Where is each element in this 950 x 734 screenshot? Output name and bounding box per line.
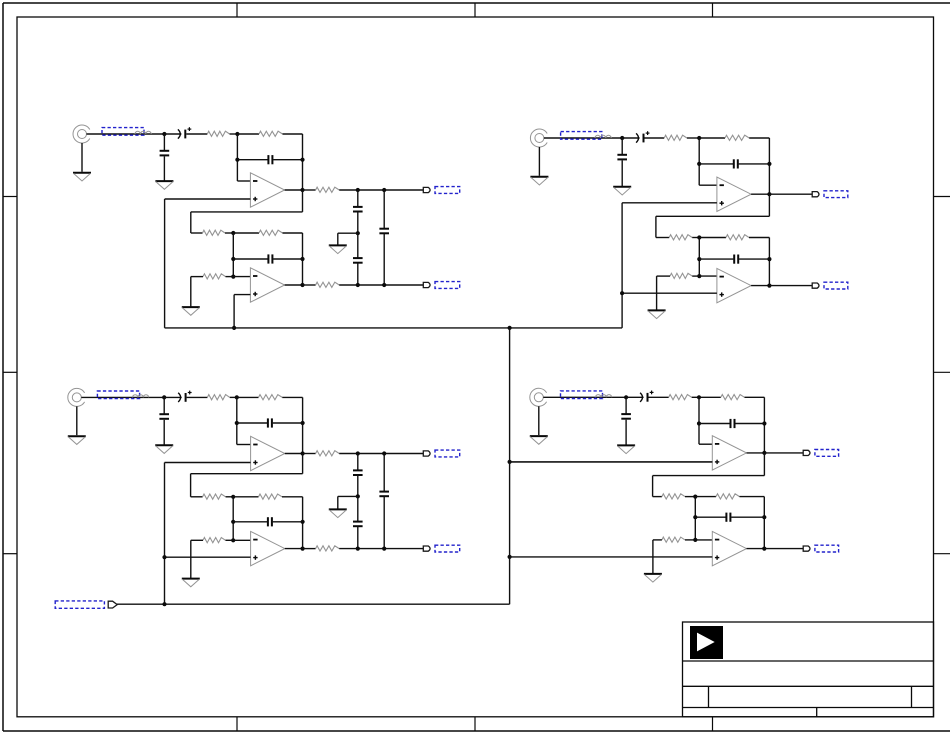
resistor R1g output xyxy=(316,282,340,287)
company logo xyxy=(690,626,723,659)
wire U3B output xyxy=(285,548,303,550)
wire R3f to pin xyxy=(339,453,423,455)
wire fb rail U3A xyxy=(302,397,304,453)
wire to C2d xyxy=(699,258,733,260)
wire R1e to ground xyxy=(190,277,192,307)
ferrite bead FB3 xyxy=(133,395,149,398)
net label box channel 1 input xyxy=(102,128,144,136)
wire U4A noninverting input xyxy=(510,461,713,463)
net label box out 2B xyxy=(824,282,848,289)
wire R3e left stub xyxy=(191,539,203,541)
wire OUT U1B to R1g xyxy=(303,284,316,286)
wire to U3A inverting input xyxy=(237,444,251,446)
node filter 3 top B xyxy=(382,451,386,455)
resistor R2c xyxy=(669,235,692,240)
wire J2 to input node xyxy=(544,137,622,139)
junction bus vertical xyxy=(508,326,512,330)
node sum U3A xyxy=(235,395,239,399)
resistor R2b feedback xyxy=(725,135,749,140)
wire R4e left stub xyxy=(653,539,662,541)
capacitor C2d feedback xyxy=(734,255,738,264)
ground at J4 xyxy=(530,436,548,444)
wire fb rail U2A xyxy=(768,138,770,194)
wire fb rail U1B xyxy=(302,233,304,285)
wire sum to R3b xyxy=(237,396,259,398)
wire U4A noninverting input xyxy=(510,461,713,463)
junction C fb U3B left xyxy=(231,520,235,524)
wire OUT U3A to R3f xyxy=(303,453,316,455)
wire R2c to sum2 xyxy=(692,237,699,239)
junction C fb U4B right xyxy=(762,515,766,519)
wire J1 shield to ground xyxy=(81,143,83,172)
ground at filter 3 xyxy=(329,509,347,517)
wire link to stage2 xyxy=(656,215,770,217)
wire to C3c xyxy=(237,422,267,424)
op-amp U4B xyxy=(712,531,746,565)
ground at J3 xyxy=(68,436,86,444)
wire U3 noninv bus down xyxy=(164,463,166,605)
wire U1B noninv down to bus xyxy=(233,295,235,328)
wire U2 noninv bus down xyxy=(621,203,623,328)
node OUT U2B xyxy=(767,284,771,288)
wire R1e to sum2 xyxy=(226,276,234,278)
net label box channel 3 input xyxy=(97,391,139,399)
node sum U2B xyxy=(697,235,701,239)
resistor R3d feedback xyxy=(259,494,283,499)
wire sum to R4b xyxy=(699,396,721,398)
wire U1A noninv down to bus xyxy=(164,199,166,328)
capacitor C4d feedback xyxy=(726,513,730,522)
ground at R4e xyxy=(644,574,662,582)
connector J4 RCA input xyxy=(530,388,547,406)
wire OUT U4B to pin xyxy=(764,548,803,550)
ground at J2 xyxy=(530,177,548,185)
wire R1b to fb rail xyxy=(283,133,303,135)
ground at R3e xyxy=(182,579,200,587)
wire C3f to bottom row xyxy=(357,527,359,549)
net label box out 1B xyxy=(435,282,460,289)
capacitor C1a shunt xyxy=(160,151,170,156)
node sum U2A xyxy=(697,136,701,140)
wire sum node down U1A xyxy=(236,134,238,181)
wire OUT U4A to pin xyxy=(764,452,803,454)
connector J3 RCA input xyxy=(68,388,85,406)
wire IN4 to C4b xyxy=(626,396,644,398)
resistor R1d feedback xyxy=(259,230,283,235)
wire C2b to R2a xyxy=(645,137,665,139)
wire R3b to fb rail xyxy=(282,396,302,398)
resistor R4d feedback xyxy=(716,494,740,499)
capacitor C1f filter xyxy=(353,258,363,263)
wire ground drop filter 1 xyxy=(337,233,339,245)
wire filter 3 col B lower xyxy=(383,497,385,549)
wire bus vertical xyxy=(509,328,511,604)
wire C1e to mid xyxy=(357,212,359,233)
node sum U3B xyxy=(231,495,235,499)
wire sum2 to R2d xyxy=(699,237,726,239)
wire link to stage2 xyxy=(191,211,303,213)
wire R4a to sum node xyxy=(692,396,699,398)
node filter 3 bottom A xyxy=(356,547,360,551)
capacitor C2a shunt xyxy=(617,155,627,160)
output pin channel 2 A xyxy=(812,192,819,197)
op-amp U2A xyxy=(717,177,751,211)
capacitor C3g filter xyxy=(379,492,389,497)
capacitor C1c feedback xyxy=(268,155,272,164)
capacitor C1d feedback xyxy=(268,254,272,263)
wire R4e to sum2 xyxy=(685,539,695,541)
net label box out 3A xyxy=(435,450,460,457)
node sum U4A xyxy=(697,395,701,399)
wire U3A noninverting input xyxy=(165,462,251,464)
resistor R4c xyxy=(662,494,685,499)
output pin channel 1 B xyxy=(423,282,430,287)
wire to C2c xyxy=(699,163,733,165)
resistor R3c xyxy=(203,494,226,499)
wire sum2 down U2B xyxy=(698,238,700,277)
wire U2B output xyxy=(751,285,769,287)
wire OUT U1A to R1f xyxy=(303,189,316,191)
wire sum node down U4A xyxy=(698,397,700,444)
wire to C4c xyxy=(699,423,730,425)
resistor R3e to ground xyxy=(203,538,226,543)
wire R2b to fb rail xyxy=(749,137,769,139)
capacitor C4a shunt xyxy=(621,414,631,419)
junction U1B inverting xyxy=(231,275,235,279)
wire C3a to ground xyxy=(163,420,165,445)
wire to C4d xyxy=(695,516,725,518)
node OUT U1B xyxy=(300,283,304,287)
wire R1d to fb rail 2 xyxy=(283,232,303,234)
resistor R1a input xyxy=(207,131,229,136)
wire U1B noninverting input xyxy=(234,294,250,296)
connector J1 RCA input xyxy=(73,125,90,143)
wire link down to R2c xyxy=(655,216,657,237)
resistor R3f output xyxy=(316,451,340,456)
wire R1a to sum node xyxy=(230,133,238,135)
wire C4c to fb rail xyxy=(735,423,764,425)
wire link down to R4c xyxy=(652,476,654,497)
node OUT U4A xyxy=(762,451,766,455)
node filter 1 top A xyxy=(356,188,360,192)
node sum U4B xyxy=(693,495,697,499)
wire bus bottom rail xyxy=(117,603,510,605)
output pin channel 1 A xyxy=(423,187,430,192)
node OUT U1A xyxy=(300,188,304,192)
junction C fb U2A right xyxy=(767,162,771,166)
node OUT U3A xyxy=(301,451,305,455)
wire link down to R3c xyxy=(190,474,192,497)
wire U2B noninverting input xyxy=(622,292,717,294)
wire U4A out down xyxy=(763,453,765,476)
wire C3d to fb rail 2 xyxy=(273,521,303,523)
capacitor C3f filter xyxy=(353,522,363,527)
node filter 3 top A xyxy=(356,451,360,455)
resistor R3a input xyxy=(207,395,229,400)
wire link to stage2 xyxy=(653,475,765,477)
wire R1g to pin xyxy=(339,284,423,286)
wire OUT U2B to pin xyxy=(769,285,812,287)
ground at C3a xyxy=(155,445,173,453)
wire to C1d xyxy=(233,258,267,260)
ground at R2e xyxy=(648,310,666,318)
capacitor C2b polarized xyxy=(636,131,649,142)
wire to C1c xyxy=(237,159,267,161)
resistor R4b feedback xyxy=(721,395,745,400)
title block xyxy=(683,622,934,717)
node filter 3 mid xyxy=(356,494,360,498)
wire U3A out down xyxy=(302,454,304,474)
junction C fb U3B right xyxy=(301,520,305,524)
junction bus U1B xyxy=(232,326,236,330)
wire to U2B inverting input xyxy=(699,275,717,277)
node IN4 xyxy=(624,395,628,399)
wire U1A output xyxy=(285,189,303,191)
wire to U1A inverting input xyxy=(237,180,250,182)
junction bus U2B xyxy=(620,291,624,295)
op-amp U3A xyxy=(251,436,285,470)
wire C4d to fb rail 2 xyxy=(731,516,764,518)
wire filter 1 mid to ground xyxy=(338,232,358,234)
wire J3 to input node xyxy=(81,396,164,398)
wire C2a to ground xyxy=(621,160,623,186)
op-amp U1A xyxy=(250,173,284,207)
wire C1a to ground xyxy=(163,156,165,180)
wire R3g to pin xyxy=(339,548,423,550)
junction C fb U2B right xyxy=(767,257,771,261)
wire R2d to fb rail 2 xyxy=(749,237,769,239)
node OUT U4B xyxy=(762,547,766,551)
net label box out 4B xyxy=(815,545,839,552)
wire IN2 to C shunt xyxy=(621,138,623,154)
capacitor C3b polarized xyxy=(178,391,191,402)
junction bus U4A xyxy=(508,460,512,464)
resistor R1c xyxy=(203,230,226,235)
wire U4A output xyxy=(747,452,765,454)
wire IN2 to C2b xyxy=(622,137,639,139)
wire link to stage2 xyxy=(191,473,303,475)
resistor R4e to ground xyxy=(662,537,685,542)
capacitor C2c feedback xyxy=(734,159,738,168)
junction C fb U4A right xyxy=(762,421,766,425)
wire filter 3 col B upper xyxy=(383,454,385,492)
wire R3d to fb rail 2 xyxy=(282,496,303,498)
resistor R3b feedback xyxy=(259,395,283,400)
wire U1B output xyxy=(285,284,303,286)
wire to U2A inverting input xyxy=(699,184,717,186)
wire C3c to fb rail xyxy=(273,422,303,424)
output pin channel 3 B xyxy=(423,546,430,551)
wire OUT U3B to R3g xyxy=(303,548,316,550)
wire IN1 to C1b xyxy=(164,133,181,135)
ground at C4a xyxy=(617,445,635,453)
wire IN4 to C shunt xyxy=(625,397,627,413)
wire U2A output xyxy=(751,193,769,195)
wire U1A out down xyxy=(302,190,304,212)
node filter 1 bottom A xyxy=(356,283,360,287)
wire to R4c xyxy=(653,496,662,498)
node IN1 xyxy=(162,132,166,136)
wire to U3B inverting input xyxy=(233,539,250,541)
net label box out 4A xyxy=(815,450,839,457)
node IN3 xyxy=(162,395,166,399)
wire fb rail U2B xyxy=(768,238,770,286)
wire U4B noninverting input xyxy=(510,556,713,558)
junction C fb U1A right xyxy=(300,158,304,162)
junction C fb U2A left xyxy=(697,162,701,166)
ground at C2a xyxy=(613,187,631,195)
capacitor C1b polarized xyxy=(178,127,191,138)
wire IN3 to C3b xyxy=(164,396,182,398)
net label box channel 4 input xyxy=(561,391,603,399)
wire J1 to input node xyxy=(87,133,165,135)
capacitor C3e filter xyxy=(353,470,363,475)
net label box out 1A xyxy=(435,187,460,194)
junction U4B inverting xyxy=(693,538,697,542)
wire J4 to input node xyxy=(543,396,626,398)
wire bus top rail xyxy=(165,327,622,329)
wire U3B noninverting input xyxy=(165,556,251,558)
ferrite bead FB2 xyxy=(595,135,611,138)
wire C4b to R4a xyxy=(649,396,669,398)
junction C fb U3A right xyxy=(301,421,305,425)
capacitor C3d feedback xyxy=(268,517,272,526)
wire ground drop filter 3 xyxy=(337,496,339,509)
resistor R2e to ground xyxy=(670,273,692,278)
ground at filter 1 xyxy=(329,245,347,253)
wire fb rail U1A xyxy=(302,134,304,190)
wire U1A noninverting input xyxy=(165,198,251,200)
net label box reference xyxy=(55,601,104,608)
net label box channel 2 input xyxy=(561,132,602,140)
wire C4a to ground xyxy=(625,420,627,445)
capacitor C3a shunt xyxy=(159,414,169,419)
wire to R2c xyxy=(656,237,669,239)
wire U2A out down xyxy=(768,194,770,216)
wire R2e to ground xyxy=(656,276,658,310)
wire R1f to pin xyxy=(339,189,423,191)
node OUT U2A xyxy=(767,192,771,196)
wire R2e to sum2 xyxy=(692,275,699,277)
capacitor C4b polarized xyxy=(640,391,653,402)
ground at C1a xyxy=(155,181,173,189)
wire C1d to fb rail 2 xyxy=(273,258,302,260)
node sum U1A xyxy=(235,132,239,136)
wire sum2 down U1B xyxy=(232,233,234,277)
wire link down to R1c xyxy=(190,212,192,233)
wire sum to R1b xyxy=(237,133,259,135)
wire mid to C1f xyxy=(357,233,359,257)
wire J2 shield to ground xyxy=(538,147,540,176)
op-amp U1B xyxy=(250,268,284,302)
ground at J1 xyxy=(73,173,91,181)
wire C1f to bottom row xyxy=(357,263,359,285)
wire R4c to sum2 xyxy=(685,496,695,498)
wire filter cap chain 1 xyxy=(357,190,359,206)
output pin channel 2 B xyxy=(812,283,819,288)
output pin channel 4 A xyxy=(803,450,810,455)
wire to R1c xyxy=(191,232,203,234)
wire sum2 down U3B xyxy=(232,497,234,541)
ferrite bead FB4 xyxy=(596,395,612,398)
wire R3e to sum2 xyxy=(226,539,234,541)
wire C2c to fb rail xyxy=(739,163,770,165)
net label box out 3B xyxy=(435,545,460,552)
resistor R1f output xyxy=(316,187,340,192)
wire C3b to R3a xyxy=(187,396,208,398)
wire to U4A inverting input xyxy=(699,443,712,445)
wire U2A noninverting input xyxy=(622,202,717,204)
wire filter 3 mid to ground xyxy=(338,495,358,497)
node IN2 xyxy=(620,136,624,140)
net label box out 2A xyxy=(824,191,848,198)
node OUT U3B xyxy=(301,547,305,551)
wire to U1B inverting input xyxy=(233,276,250,278)
wire fb rail U4B xyxy=(763,497,765,549)
junction bus U3B xyxy=(162,555,166,559)
wire to U4B inverting input xyxy=(695,539,712,541)
wire sum node down U2A xyxy=(698,138,700,185)
node filter 3 bottom B xyxy=(382,547,386,551)
output pin channel 4 B xyxy=(803,546,810,551)
capacitor C1g filter xyxy=(379,229,389,234)
wire C1c to fb rail xyxy=(273,159,302,161)
wire fb rail U4A xyxy=(763,397,765,453)
wire J4 shield to ground xyxy=(538,406,540,435)
wire sum2 to R1d xyxy=(233,232,259,234)
wire R4d to fb rail 2 xyxy=(740,496,765,498)
wire R3c to sum2 xyxy=(226,496,234,498)
wire J3 shield to ground xyxy=(76,406,78,435)
reference pin glyph xyxy=(108,601,117,608)
wire sum2 to R3d xyxy=(233,496,258,498)
wire sum to R2b xyxy=(699,137,725,139)
wire R3e to ground xyxy=(190,540,192,578)
junction C fb U1B right xyxy=(300,257,304,261)
wire fb rail U3B xyxy=(302,497,304,549)
wire to R3c xyxy=(191,496,203,498)
op-amp U4A xyxy=(712,436,746,470)
resistor R2a input xyxy=(664,135,687,140)
capacitor C4c feedback xyxy=(731,419,735,428)
junction C fb U1B left xyxy=(231,257,235,261)
wire R2a to sum node xyxy=(687,137,699,139)
wire sum2 down U4B xyxy=(694,497,696,540)
wire C2d to fb rail 2 xyxy=(739,258,769,260)
wire R1e left stub xyxy=(191,276,203,278)
connector J2 RCA input xyxy=(530,129,547,147)
node filter 1 bottom B xyxy=(382,283,386,287)
resistor R1e to ground xyxy=(203,274,226,279)
junction C fb U4A left xyxy=(697,421,701,425)
wire R4e to ground xyxy=(652,540,654,574)
junction C fb U1A left xyxy=(235,158,239,162)
wire to C3d xyxy=(233,521,267,523)
capacitor C1e filter xyxy=(353,207,363,212)
wire C3e to mid xyxy=(357,476,359,497)
ferrite bead FB1 xyxy=(135,131,151,134)
node filter 1 top B xyxy=(382,188,386,192)
wire filter 1 col B upper xyxy=(383,190,385,228)
junction U3B inverting xyxy=(231,538,235,542)
wire C1b to R1a xyxy=(186,133,207,135)
wire U3A output xyxy=(285,453,303,455)
ground at R1e xyxy=(182,307,200,315)
junction U2B inverting xyxy=(697,274,701,278)
wire IN3 to C shunt xyxy=(163,397,165,413)
junction bus U4B xyxy=(508,555,512,559)
wire mid to C3f xyxy=(357,496,359,521)
